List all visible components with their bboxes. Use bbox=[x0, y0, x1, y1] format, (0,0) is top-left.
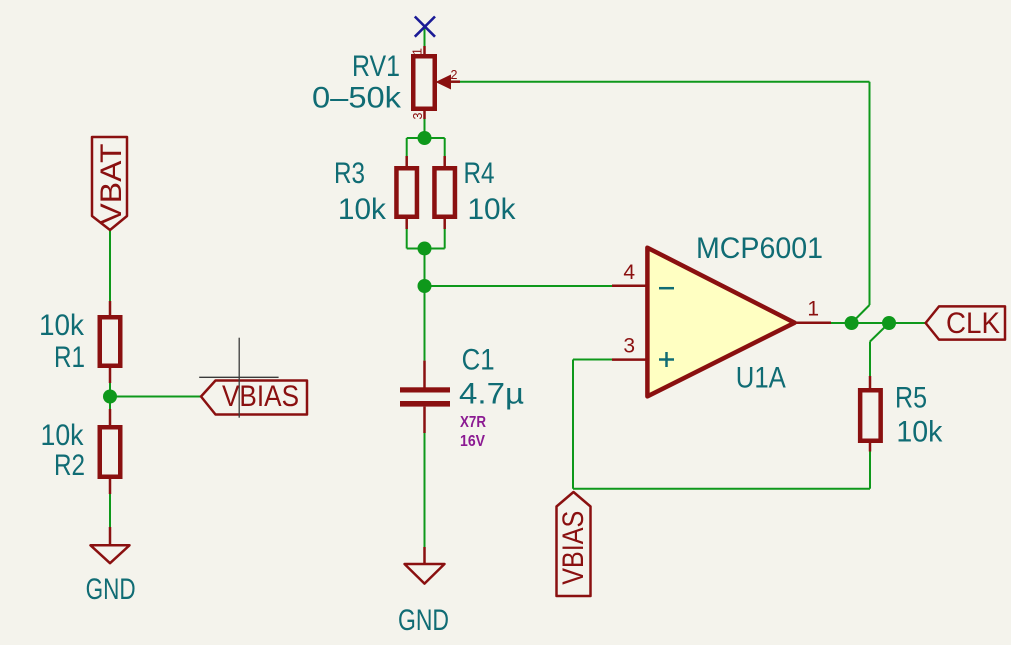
svg-text:10k: 10k bbox=[39, 309, 85, 342]
svg-text:MCP6001: MCP6001 bbox=[696, 232, 823, 265]
svg-text:RV1: RV1 bbox=[352, 50, 400, 83]
svg-text:10k: 10k bbox=[338, 193, 387, 226]
svg-text:R4: R4 bbox=[464, 157, 495, 190]
svg-text:3: 3 bbox=[623, 335, 635, 358]
svg-text:X7R: X7R bbox=[460, 414, 486, 431]
svg-text:GND: GND bbox=[398, 604, 449, 637]
svg-text:10k: 10k bbox=[468, 193, 517, 226]
svg-text:1: 1 bbox=[411, 48, 425, 55]
svg-text:VBIAS: VBIAS bbox=[557, 511, 590, 585]
svg-text:2: 2 bbox=[451, 68, 458, 82]
svg-text:3: 3 bbox=[411, 113, 425, 120]
svg-text:R2: R2 bbox=[54, 449, 85, 482]
svg-text:U1A: U1A bbox=[736, 362, 786, 395]
svg-text:GND: GND bbox=[86, 573, 136, 606]
svg-text:R1: R1 bbox=[54, 341, 85, 374]
svg-text:C1: C1 bbox=[462, 343, 495, 376]
svg-text:VBIAS: VBIAS bbox=[222, 380, 299, 413]
svg-text:10k: 10k bbox=[896, 416, 943, 449]
svg-text:4: 4 bbox=[623, 261, 635, 284]
svg-text:10k: 10k bbox=[41, 419, 85, 452]
svg-text:1: 1 bbox=[807, 297, 819, 320]
svg-text:0–50k: 0–50k bbox=[312, 82, 402, 115]
svg-text:VBAT: VBAT bbox=[95, 144, 128, 225]
svg-text:R3: R3 bbox=[334, 157, 365, 190]
svg-text:CLK: CLK bbox=[946, 307, 1000, 340]
svg-text:16V: 16V bbox=[460, 433, 485, 450]
svg-text:R5: R5 bbox=[895, 382, 927, 415]
svg-text:4.7µ: 4.7µ bbox=[459, 378, 524, 411]
